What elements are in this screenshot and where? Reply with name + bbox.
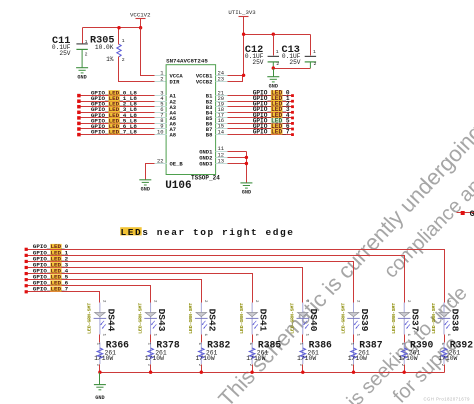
wire GPIO_LED_2 to LED column: [27, 262, 354, 303]
net label GPIO_LED_4 bottom: [33, 267, 69, 274]
net label GPIO_LED_1 bottom: [33, 249, 69, 256]
wire R305 bottom to DIR: [119, 57, 155, 82]
svg-text:DS37: DS37: [410, 309, 421, 332]
wire GND2: [228, 157, 247, 159]
pin A8 stub: [155, 134, 167, 136]
svg-text:U106: U106: [165, 180, 191, 192]
svg-text:GND: GND: [77, 74, 86, 80]
pin VCCB1 stub: [216, 75, 228, 77]
junction VCC1V2 stem: [139, 26, 142, 29]
title text LEDs near top right edge: [120, 227, 294, 238]
svg-text:1: 1: [122, 38, 125, 44]
pin B1 stub: [216, 95, 228, 97]
wire gnd lead C12: [273, 69, 275, 77]
wire GPIO_LED_1 to LED column: [27, 256, 405, 303]
junction GND2: [245, 156, 248, 159]
node square GPIO_LED_0 right: [291, 94, 294, 97]
junction rail left: [242, 33, 245, 36]
pin B2 stub: [216, 101, 228, 103]
net label GPIO_LED_2 bottom: [33, 255, 69, 262]
junction R305 top: [117, 26, 120, 29]
LED DS37: [391, 300, 421, 337]
wire LED to resistor: [150, 335, 152, 343]
svg-text:1: 1: [313, 49, 316, 55]
wire GPIO_LED_7 to LED column: [27, 292, 100, 303]
svg-text:1: 1: [85, 39, 88, 45]
svg-text:LED-GRN-SMT: LED-GRN-SMT: [137, 303, 143, 334]
ground below GND pins: [240, 183, 252, 196]
wire A5 net: [79, 117, 155, 119]
svg-text:LED-GRN-SMT: LED-GRN-SMT: [239, 303, 245, 334]
wire resistor to bottom bus: [150, 365, 152, 373]
ground below C12 C13: [267, 77, 279, 90]
net label GPIO_LED_5 bottom: [33, 274, 69, 281]
chip pin names right: [196, 72, 213, 167]
wire GPIO_LED_3 to LED column: [27, 268, 303, 303]
svg-text:LED-GRN-SMT: LED-GRN-SMT: [290, 303, 296, 334]
pin A5 stub: [155, 117, 167, 119]
wire R305 top lead: [118, 28, 120, 45]
net label GPIO_LED_4: [253, 112, 290, 119]
wire VCCB2 up to VCCB1: [228, 76, 243, 82]
svg-text:LED-GRN-SMT: LED-GRN-SMT: [340, 303, 346, 334]
wire B1 net: [228, 95, 293, 97]
pin GND1 stub: [216, 151, 228, 153]
net label GPIO_LED_6 bottom: [33, 280, 69, 287]
net label GPIO_LED_2_L8: [91, 101, 137, 108]
capacitor C12: [245, 45, 279, 68]
wire LED to resistor: [353, 335, 355, 343]
power symbol UTIL_3V3: [228, 9, 256, 34]
net label GPIO_LED_5: [253, 117, 290, 124]
svg-text:1/10W: 1/10W: [196, 355, 215, 362]
node square GPIO_LED_2 right: [291, 105, 294, 108]
net label GPIO_LED_5_L8: [91, 117, 137, 124]
wire VCC1V2 rail: [83, 27, 141, 29]
wire B7 net: [228, 128, 293, 130]
chip pin numbers left: [157, 69, 164, 164]
svg-text:UTIL_3V3: UTIL_3V3: [228, 9, 256, 16]
svg-text:LED-GRN-SMT: LED-GRN-SMT: [391, 303, 397, 334]
svg-text:TSSOP_24: TSSOP_24: [191, 175, 220, 182]
chip pin names left: [170, 72, 184, 167]
wire GPIO_LED_4 to LED column: [27, 274, 253, 303]
node square GPIO_LED_5_L8: [77, 122, 81, 126]
wire bottom ground bus: [100, 372, 445, 374]
net label GPIO_LED_6: [253, 123, 290, 130]
wire A8 net: [79, 134, 155, 136]
LED DS42: [188, 300, 218, 337]
pin B5 stub: [216, 117, 228, 119]
wire gnd lead bottom: [99, 373, 101, 385]
node square GPIO_LED_5 bottom: [25, 278, 28, 281]
svg-text:OE_B: OE_B: [170, 161, 184, 168]
wire A4 net: [79, 112, 155, 114]
net label GPIO_LED_0_L8: [91, 90, 137, 97]
wire GPIO_LED_0 to LED column: [27, 250, 445, 303]
node square GPIO_LED_3 right: [291, 111, 294, 114]
wire resistor to bottom bus: [252, 365, 254, 373]
capacitor C13: [282, 45, 317, 68]
wire UTIL_3V3 down to VCCB: [243, 35, 245, 76]
svg-text:25V: 25V: [252, 59, 263, 66]
pin A1 stub: [155, 95, 167, 97]
resistor R305: [90, 36, 125, 64]
wire fragment right edge: [457, 212, 474, 214]
wire GND1: [228, 151, 247, 153]
svg-text:GPIO_LED_7_L8: GPIO_LED_7_L8: [91, 129, 137, 136]
wire B4 net: [228, 112, 293, 114]
pin B7 stub: [216, 128, 228, 130]
svg-text:1/10W: 1/10W: [246, 355, 265, 362]
net label GPIO_LED_0 bottom: [33, 243, 69, 250]
node square GPIO_LED_4 right: [291, 117, 294, 120]
node square GPIO_LED_3_L8: [77, 111, 81, 115]
pin B3 stub: [216, 106, 228, 108]
wire LED to resistor: [201, 335, 203, 343]
ground bottom bus: [94, 385, 106, 401]
resistor R382: [196, 339, 231, 366]
LED DS43: [137, 300, 167, 337]
junction bottom bus: [200, 371, 203, 374]
svg-text:1/10W: 1/10W: [297, 355, 316, 362]
net label GPIO_LED_4_L8: [91, 112, 137, 119]
svg-text:GND: GND: [95, 395, 104, 401]
watermark diagonal text: [213, 120, 474, 404]
ground below C11: [76, 68, 88, 81]
svg-text:DS44: DS44: [105, 309, 116, 332]
wire B6 net: [228, 123, 293, 125]
resistor R392: [438, 339, 473, 366]
junction VCCB1: [242, 74, 245, 77]
net label GPIO_LED_3: [253, 106, 290, 113]
node square right edge: [461, 211, 465, 215]
net label GPIO_LED_7: [253, 129, 290, 136]
junction GND3: [245, 162, 248, 165]
wire A1 net: [79, 95, 155, 97]
svg-text:DS41: DS41: [258, 309, 269, 332]
svg-text:10.0K: 10.0K: [95, 44, 114, 51]
svg-text:1/10W: 1/10W: [348, 355, 367, 362]
node square GPIO_LED_4 bottom: [25, 272, 28, 275]
wire LED to resistor: [302, 335, 304, 343]
resistor R366: [94, 339, 129, 366]
net label GPIO_LED_6_L8: [91, 123, 137, 130]
wire LED to resistor: [99, 335, 101, 343]
ground below OE_B: [139, 180, 151, 193]
wire GPIO_LED_5 to LED column: [27, 280, 202, 303]
pin GND3 stub: [216, 163, 228, 165]
svg-text:GND: GND: [141, 186, 150, 192]
resistor R386: [297, 339, 332, 366]
svg-text:CGH Pro182071679: CGH Pro182071679: [424, 397, 471, 402]
LED DS39: [340, 300, 370, 337]
node square GPIO_LED_6 right: [291, 128, 294, 131]
resistor R387: [348, 339, 383, 366]
wire resistor to bottom bus: [302, 365, 304, 373]
pin VCCA stub: [155, 75, 167, 77]
junction bottom bus: [352, 371, 355, 374]
pin A2 stub: [155, 101, 167, 103]
net label GPIO_LED_0: [253, 90, 290, 97]
wire LED to resistor: [444, 335, 446, 343]
wire resistor to bottom bus: [353, 365, 355, 373]
wire C12 top lead: [273, 35, 275, 56]
svg-text:DS39: DS39: [359, 309, 370, 332]
svg-text:LED-GRN-SMT: LED-GRN-SMT: [87, 303, 93, 334]
node square GPIO_LED_3 bottom: [25, 266, 28, 269]
svg-text:GND: GND: [269, 83, 278, 89]
wire cap rail: [244, 34, 311, 36]
net label GPIO_LED_2: [253, 101, 290, 108]
svg-text:LED-GRN-SMT: LED-GRN-SMT: [431, 303, 437, 334]
LED DS40: [290, 300, 320, 337]
pin GND2 stub: [216, 157, 228, 159]
svg-text:A8: A8: [170, 132, 177, 139]
wire VCCB1 to UTIL rail: [228, 75, 244, 77]
node square GPIO_LED_5 right: [291, 122, 294, 125]
net label GPIO_LED_1_L8: [91, 95, 137, 102]
pin OE_B stub: [155, 163, 167, 165]
pin A6 stub: [155, 123, 167, 125]
svg-text:DS38: DS38: [449, 309, 460, 332]
chip pin numbers right: [218, 69, 225, 164]
svg-text:GPIO_LED_7: GPIO_LED_7: [253, 129, 290, 136]
junction rail C12: [272, 33, 275, 36]
svg-text:25V: 25V: [289, 59, 300, 66]
capacitor C11: [52, 36, 88, 68]
svg-text:B8: B8: [206, 132, 213, 139]
wire LED to resistor: [252, 335, 254, 343]
junction C12 bottom: [272, 66, 275, 69]
node square GPIO_LED_1 right: [291, 100, 294, 103]
node square GPIO_LED_2_L8: [77, 105, 81, 109]
node square GPIO_LED_1 bottom: [25, 254, 28, 257]
svg-text:25V: 25V: [59, 50, 70, 57]
wire resistor to bottom bus: [99, 365, 101, 373]
wire resistor to bottom bus: [444, 365, 446, 373]
junction bottom bus: [250, 371, 253, 374]
svg-text:DS42: DS42: [207, 309, 218, 332]
svg-text:DS40: DS40: [308, 309, 319, 332]
power symbol VCC1V2: [130, 12, 151, 28]
junction bottom bus: [98, 371, 101, 374]
pin A4 stub: [155, 112, 167, 114]
wire B3 net: [228, 106, 293, 108]
pin B8 stub: [216, 134, 228, 136]
pin A7 stub: [155, 128, 167, 130]
wire B8 net: [228, 134, 293, 136]
op chip U106 SN74AVC8T245 body: [166, 65, 216, 175]
pin A3 stub: [155, 106, 167, 108]
node square GPIO_LED_4_L8: [77, 116, 81, 120]
svg-text:1%: 1%: [106, 56, 114, 63]
svg-text:GND3: GND3: [199, 161, 213, 168]
wire LED to resistor: [404, 335, 406, 343]
wire GND bus down: [246, 152, 248, 183]
LED DS41: [239, 300, 269, 337]
wire A2 net: [79, 101, 155, 103]
svg-text:1: 1: [276, 49, 279, 55]
node square GPIO_LED_7_L8: [77, 133, 81, 137]
resistor R385: [246, 339, 281, 366]
svg-text:1/10W: 1/10W: [398, 355, 417, 362]
wire B2 net: [228, 101, 293, 103]
net label GPIO_LED_7 bottom: [33, 286, 69, 293]
svg-text:GPIO_LED_7: GPIO_LED_7: [33, 286, 69, 293]
svg-text:2: 2: [314, 61, 317, 67]
wire VCC to VCCA pin: [141, 28, 155, 76]
svg-text:GN: GN: [470, 209, 474, 219]
svg-text:2: 2: [85, 52, 88, 58]
junction bottom bus: [149, 371, 152, 374]
svg-text:2: 2: [160, 76, 163, 83]
resistor R390: [398, 339, 433, 366]
svg-text:DIR: DIR: [170, 79, 181, 86]
svg-text:LEDs near top right edge: LEDs near top right edge: [121, 227, 295, 238]
node square GPIO_LED_0_L8: [77, 94, 81, 98]
svg-text:1/10W: 1/10W: [145, 355, 164, 362]
node square GPIO_LED_7 right: [291, 133, 294, 136]
svg-text:GND: GND: [242, 190, 251, 196]
net label GPIO_LED_7_L8: [91, 129, 137, 136]
pin B6 stub: [216, 123, 228, 125]
svg-text:SN74AVC8T245: SN74AVC8T245: [166, 58, 208, 65]
wire C11 top lead: [82, 28, 84, 44]
LED DS38: [431, 300, 461, 337]
pin VCCB2 stub: [216, 81, 228, 83]
net label GPIO_LED_1: [253, 95, 290, 102]
wire cap bottom rail: [274, 68, 311, 70]
net label GPIO_LED_3 bottom: [33, 261, 69, 268]
junction bottom bus: [403, 371, 406, 374]
LED DS44: [87, 300, 117, 337]
svg-text:LED-GRN-SMT: LED-GRN-SMT: [188, 303, 194, 334]
node square GPIO_LED_1_L8: [77, 99, 81, 103]
svg-text:VCC1V2: VCC1V2: [130, 12, 151, 19]
svg-text:1/10W: 1/10W: [94, 355, 113, 362]
wire GPIO_LED_6 to LED column: [27, 286, 151, 303]
wire GND3: [228, 163, 247, 165]
svg-text:1/10W: 1/10W: [438, 355, 457, 362]
junction bottom bus: [301, 371, 304, 374]
wire C13 top lead: [310, 35, 312, 56]
resistor R378: [145, 339, 180, 366]
node square GPIO_LED_6 bottom: [25, 284, 28, 287]
wire resistor to bottom bus: [404, 365, 406, 373]
node square GPIO_LED_2 bottom: [25, 260, 28, 263]
wire OE_B to ground: [146, 164, 155, 180]
node square GPIO_LED_0 bottom: [25, 248, 28, 251]
wire A6 net: [79, 123, 155, 125]
pin B4 stub: [216, 112, 228, 114]
wire A7 net: [79, 128, 155, 130]
svg-text:2: 2: [122, 57, 125, 63]
node square GPIO_LED_6_L8: [77, 127, 81, 131]
svg-text:VCCB2: VCCB2: [196, 79, 213, 86]
net label GPIO_LED_3_L8: [91, 106, 137, 113]
wire resistor to bottom bus: [201, 365, 203, 373]
svg-text:2: 2: [276, 61, 279, 67]
pin DIR stub: [155, 81, 167, 83]
node square GPIO_LED_7 bottom: [25, 290, 28, 293]
svg-text:DS43: DS43: [156, 309, 167, 332]
wire B5 net: [228, 117, 293, 119]
wire A3 net: [79, 106, 155, 108]
